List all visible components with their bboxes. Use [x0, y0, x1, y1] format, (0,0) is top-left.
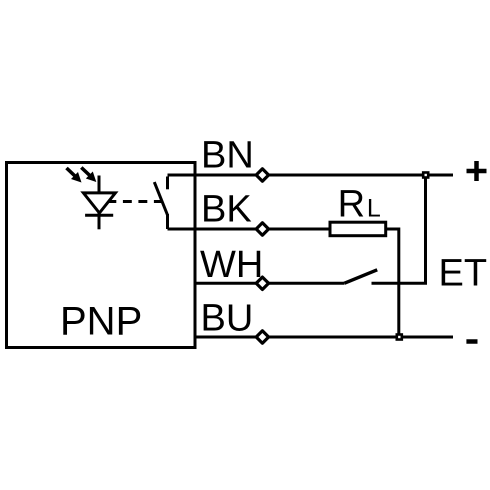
terminal plus	[467, 161, 487, 181]
wire BU	[195, 336, 453, 339]
connector diamond WH	[256, 277, 268, 289]
wire from resistor to down-corner	[386, 229, 399, 337]
terminal minus	[466, 339, 477, 344]
resistor RL	[330, 222, 386, 236]
photodiode D1	[83, 176, 115, 230]
sensor body box U1	[7, 163, 196, 348]
junction on BN (ET tap)	[423, 173, 428, 178]
svg-text:WH: WH	[200, 244, 263, 286]
svg-text:PNP: PNP	[60, 300, 142, 344]
switch S2 (external, ET)	[344, 270, 377, 284]
wire BN	[168, 174, 454, 177]
svg-text:BK: BK	[201, 189, 252, 231]
svg-text:BU: BU	[201, 297, 254, 339]
connector diamond BK	[256, 223, 268, 235]
svg-text:R: R	[338, 184, 365, 226]
wire ET branch	[372, 175, 426, 283]
svg-text:ET: ET	[439, 253, 488, 295]
connector diamond BU	[256, 331, 268, 343]
light arrow 1	[67, 168, 82, 183]
light arrow 2	[81, 168, 96, 183]
junction on BU (RL tap)	[397, 335, 402, 340]
dashed actuation link	[109, 200, 163, 203]
wire BK	[168, 228, 331, 231]
connector diamond BN	[256, 169, 268, 181]
svg-text:BN: BN	[201, 134, 254, 176]
svg-text:L: L	[367, 195, 381, 223]
switch S1	[154, 177, 167, 230]
wire WH	[195, 282, 344, 285]
